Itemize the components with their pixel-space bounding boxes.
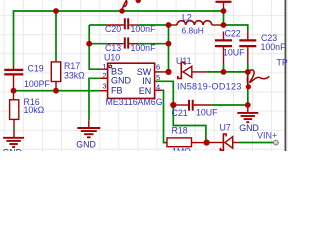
svg-text:U7: U7 xyxy=(220,122,231,132)
svg-text:C13: C13 xyxy=(105,43,121,53)
svg-text:C21: C21 xyxy=(172,108,188,118)
svg-text:L2: L2 xyxy=(182,12,192,22)
svg-text:GND: GND xyxy=(3,147,23,151)
svg-text:GND: GND xyxy=(111,76,132,86)
svg-text:TP: TP xyxy=(277,58,288,68)
svg-text:R18: R18 xyxy=(172,126,188,136)
svg-text:GND: GND xyxy=(76,139,96,149)
svg-text:6.8uH: 6.8uH xyxy=(182,26,204,36)
svg-text:R17: R17 xyxy=(64,61,80,71)
svg-text:2: 2 xyxy=(102,71,106,80)
svg-text:U11: U11 xyxy=(176,56,192,66)
svg-text:100PF: 100PF xyxy=(24,79,51,89)
svg-text:100nF: 100nF xyxy=(131,43,157,53)
svg-text:1: 1 xyxy=(102,62,106,71)
svg-text:3: 3 xyxy=(102,81,106,90)
svg-text:C20: C20 xyxy=(105,24,121,34)
svg-text:1MΩ: 1MΩ xyxy=(172,147,191,151)
svg-text:10UF: 10UF xyxy=(223,47,245,57)
svg-text:VIN+: VIN+ xyxy=(257,130,277,140)
svg-text:IN5819-OD123: IN5819-OD123 xyxy=(177,82,242,92)
svg-text:ME3116AM6G: ME3116AM6G xyxy=(106,97,163,107)
svg-text:C22: C22 xyxy=(225,29,241,39)
svg-text:6: 6 xyxy=(156,62,160,71)
svg-text:5: 5 xyxy=(156,73,160,82)
svg-text:GND: GND xyxy=(239,123,259,133)
svg-text:C19: C19 xyxy=(28,64,44,74)
svg-text:100nF: 100nF xyxy=(261,42,287,52)
svg-text:4: 4 xyxy=(156,82,160,91)
svg-text:10UF: 10UF xyxy=(196,108,218,118)
svg-text:10kΩ: 10kΩ xyxy=(24,105,45,115)
svg-text:FB: FB xyxy=(111,86,123,96)
svg-text:EN: EN xyxy=(139,86,152,96)
svg-text:33kΩ: 33kΩ xyxy=(64,71,85,81)
svg-text:100nF: 100nF xyxy=(131,24,157,34)
svg-text:IN: IN xyxy=(142,76,151,86)
